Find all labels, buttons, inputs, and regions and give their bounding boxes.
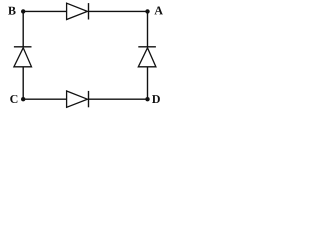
- diode left (C to B, pointing up): [14, 47, 32, 67]
- node D label: [152, 95, 160, 103]
- wire right-lower: right diode anode down to node D: [147, 67, 149, 99]
- node A label: [154, 6, 162, 14]
- wire top-left: node B to top diode anode: [23, 10, 66, 12]
- node D junction dot: [145, 97, 149, 101]
- node B label: [8, 7, 15, 15]
- diode bottom (C to D, pointing right): [67, 91, 89, 107]
- diode right (D to A, pointing up): [138, 47, 156, 67]
- node C label: [10, 95, 17, 103]
- wire right-upper: node A down to right diode cathode bar: [147, 11, 149, 47]
- node A junction dot: [145, 9, 149, 13]
- node B junction dot: [21, 9, 25, 13]
- wire left-upper: node B down to left diode cathode bar: [22, 11, 24, 47]
- wire bottom-right: bottom diode cathode to node D: [89, 98, 148, 100]
- wire left-lower: left diode anode down to node C: [22, 67, 24, 99]
- diode top (B to A, pointing right): [67, 3, 89, 19]
- wire bottom-left: node C to bottom diode anode: [23, 98, 66, 100]
- wire top-right: top diode cathode to node A: [89, 10, 148, 12]
- node C junction dot: [21, 97, 25, 101]
